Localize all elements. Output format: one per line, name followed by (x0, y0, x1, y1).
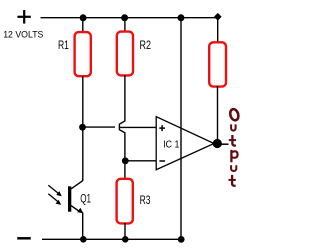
node junction dot bottom rail at supply line (178, 236, 185, 243)
wire top supply rail (41, 18, 218, 43)
transistor Q1 emitter diagonal with arrowhead (71, 206, 83, 214)
node corner diamond top rail right (214, 13, 222, 21)
letter u 1 (231, 124, 236, 130)
letter O (229, 108, 240, 121)
op-amp plus input symbol (159, 125, 165, 131)
node junction dot top rail at R1 (80, 14, 87, 21)
node output dot (213, 139, 222, 148)
svg-text:R1: R1 (58, 38, 69, 52)
wire Q1 emitter to bottom rail (82, 213, 84, 240)
wire output stub (221, 143, 229, 145)
node junction dot top rail at R2 (121, 14, 128, 21)
letter t 2 (232, 175, 236, 186)
svg-text:R3: R3 (140, 193, 151, 207)
plus terminal symbol (17, 10, 30, 24)
wire R2 bottom with crossover hop (119, 75, 125, 180)
light arrow 1 into Q1 (48, 185, 62, 196)
node junction dot bottom rail at Q1 (80, 236, 87, 243)
wire R1 bottom to Q1 collector (82, 76, 84, 181)
wire bottom supply rail (42, 238, 184, 240)
svg-text:12 VOLTS: 12 VOLTS (3, 30, 43, 40)
letter t 1 (232, 135, 236, 146)
light arrow 2 into Q1 (48, 194, 61, 205)
op-amp U1 triangle (156, 117, 214, 170)
letter p (230, 150, 232, 162)
wire output resistor bottom to output node (217, 86, 219, 141)
transistor Q1 base bar (68, 186, 71, 211)
resistor R3 (117, 179, 133, 224)
resistor R2 (117, 32, 133, 76)
svg-text:Q1: Q1 (80, 192, 91, 206)
resistor R1 (75, 32, 91, 76)
svg-text:R2: R2 (140, 38, 152, 52)
wire crossover to op-amp plus input (120, 126, 157, 128)
wire junction to op-amp minus input (125, 160, 156, 162)
resistor R4 output pull-up (209, 42, 226, 86)
wire junction to crossover left segment (83, 126, 116, 128)
wire R3 bottom lead (124, 223, 126, 239)
wire R1 top lead (82, 18, 84, 33)
label Output vertical text (229, 108, 240, 186)
wire R2 top lead (124, 18, 126, 33)
node junction dot bottom rail at R3 (122, 236, 129, 243)
wire op-amp supply rail vertical (180, 18, 182, 240)
node junction dot R2-R3 to op-amp inverting input (122, 157, 129, 164)
node junction dot top rail at supply line (178, 14, 185, 21)
transistor Q1 collector diagonal (71, 181, 83, 189)
node junction dot R1-Q1 to op-amp non-inverting input (79, 124, 86, 131)
op-amp minus input symbol (159, 160, 165, 162)
minus terminal symbol (17, 237, 31, 240)
svg-text:IC 1: IC 1 (163, 140, 180, 151)
letter u 2 (231, 165, 236, 171)
